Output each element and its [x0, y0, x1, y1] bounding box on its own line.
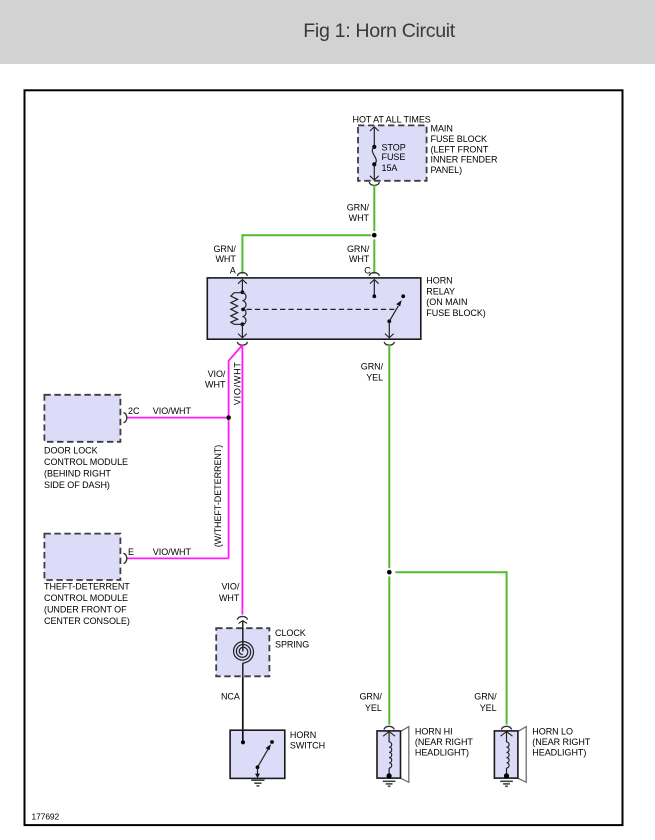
svg-text:HORN: HORN: [290, 730, 316, 740]
svg-text:GRN/: GRN/: [347, 203, 370, 213]
svg-text:HEADLIGHT): HEADLIGHT): [532, 747, 586, 757]
svg-text:177692: 177692: [32, 812, 60, 822]
svg-text:FUSE BLOCK): FUSE BLOCK): [426, 308, 486, 318]
svg-text:CONTROL MODULE: CONTROL MODULE: [44, 593, 128, 603]
svg-text:VIO/: VIO/: [221, 582, 239, 592]
svg-text:VIO/WHT: VIO/WHT: [153, 547, 192, 557]
svg-text:A: A: [230, 265, 236, 275]
svg-text:VIO/: VIO/: [208, 369, 226, 379]
svg-text:CONTROL MODULE: CONTROL MODULE: [44, 457, 128, 467]
svg-text:SPRING: SPRING: [275, 640, 309, 650]
svg-text:2C: 2C: [128, 406, 140, 416]
svg-text:YEL: YEL: [480, 703, 497, 713]
svg-text:HORN HI: HORN HI: [415, 727, 453, 737]
svg-text:NCA: NCA: [221, 692, 240, 702]
svg-text:GRN/: GRN/: [213, 244, 236, 254]
svg-text:RELAY: RELAY: [426, 286, 455, 296]
svg-text:WHT: WHT: [219, 593, 240, 603]
svg-text:SWITCH: SWITCH: [290, 740, 325, 750]
svg-text:(ON MAIN: (ON MAIN: [426, 297, 467, 307]
svg-text:(W/THEFT-DETERRENT): (W/THEFT-DETERRENT): [213, 445, 223, 548]
svg-text:CLOCK: CLOCK: [275, 628, 306, 638]
svg-text:SIDE OF DASH): SIDE OF DASH): [44, 480, 110, 490]
svg-text:YEL: YEL: [365, 703, 382, 713]
svg-text:(NEAR RIGHT: (NEAR RIGHT: [532, 737, 591, 747]
svg-text:GRN/: GRN/: [359, 691, 382, 701]
svg-text:FUSE BLOCK: FUSE BLOCK: [431, 134, 488, 144]
svg-text:THEFT-DETERRENT: THEFT-DETERRENT: [44, 581, 130, 591]
svg-text:(BEHIND RIGHT: (BEHIND RIGHT: [44, 468, 111, 478]
svg-text:(NEAR RIGHT: (NEAR RIGHT: [415, 737, 474, 747]
svg-text:HORN LO: HORN LO: [532, 727, 573, 737]
svg-text:15A: 15A: [382, 163, 398, 173]
svg-text:DOOR LOCK: DOOR LOCK: [44, 445, 98, 455]
svg-text:FUSE: FUSE: [382, 152, 406, 162]
svg-text:HORN: HORN: [426, 276, 452, 286]
svg-text:E: E: [128, 547, 134, 557]
svg-text:INNER FENDER: INNER FENDER: [431, 155, 498, 165]
svg-text:(LEFT FRONT: (LEFT FRONT: [431, 144, 489, 154]
svg-text:PANEL): PANEL): [431, 165, 463, 175]
svg-text:MAIN: MAIN: [431, 124, 453, 134]
svg-text:WHT: WHT: [215, 254, 236, 264]
svg-text:STOP: STOP: [382, 142, 406, 152]
svg-text:CENTER CONSOLE): CENTER CONSOLE): [44, 616, 130, 626]
svg-text:HOT AT ALL TIMES: HOT AT ALL TIMES: [353, 114, 431, 124]
svg-text:GRN/: GRN/: [474, 691, 497, 701]
svg-text:GRN/: GRN/: [361, 361, 384, 371]
svg-text:HEADLIGHT): HEADLIGHT): [415, 747, 469, 757]
svg-text:YEL: YEL: [366, 373, 383, 383]
svg-text:VIO/WHT: VIO/WHT: [233, 361, 243, 405]
svg-text:(UNDER FRONT OF: (UNDER FRONT OF: [44, 604, 127, 614]
svg-text:WHT: WHT: [349, 254, 370, 264]
svg-text:WHT: WHT: [205, 379, 226, 389]
svg-text:WHT: WHT: [349, 213, 370, 223]
svg-text:VIO/WHT: VIO/WHT: [153, 406, 192, 416]
svg-text:GRN/: GRN/: [347, 244, 370, 254]
